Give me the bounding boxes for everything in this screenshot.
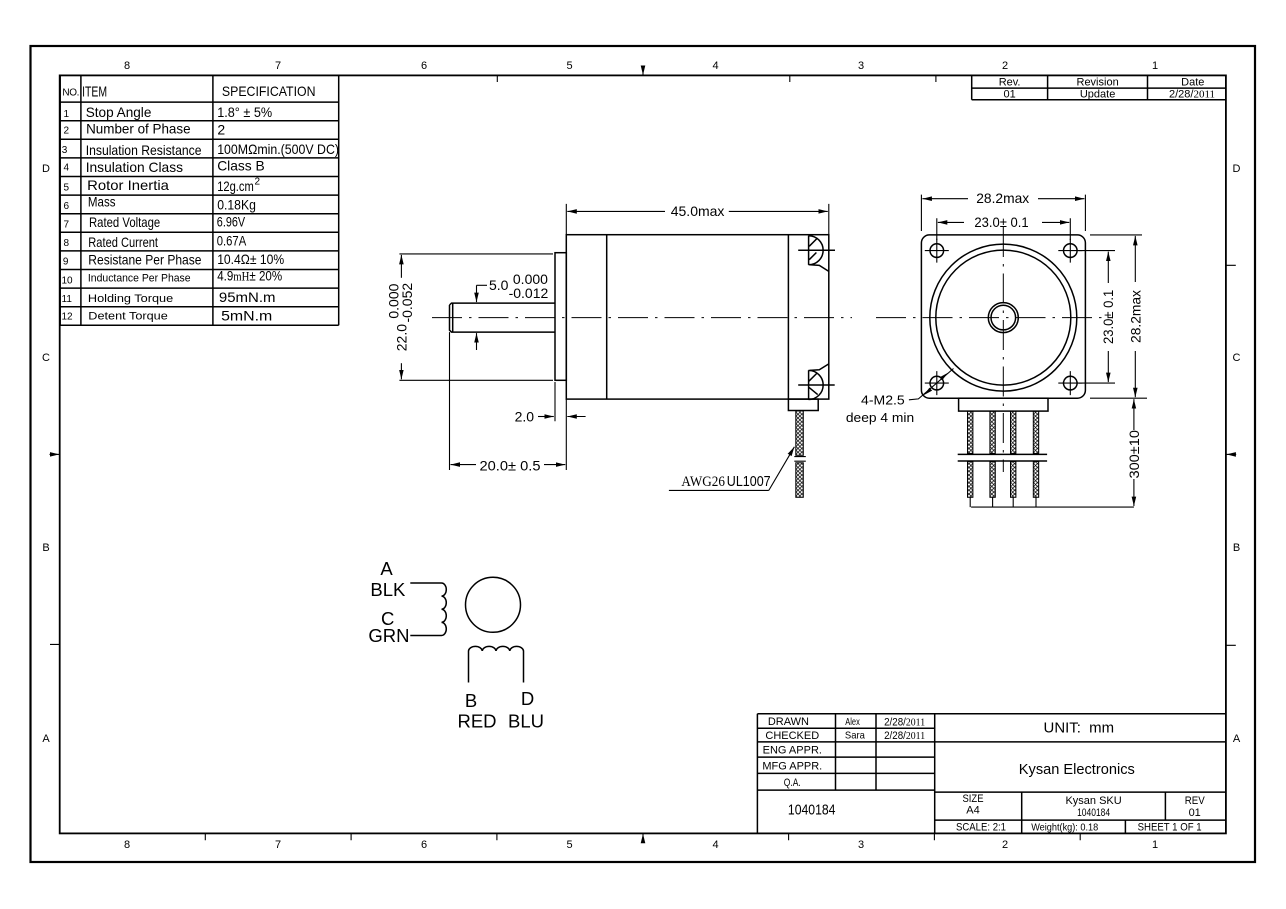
svg-text:2/28/2011: 2/28/2011: [884, 717, 925, 729]
svg-text:ENG APPR.: ENG APPR.: [763, 745, 822, 757]
svg-text:D: D: [1233, 163, 1241, 175]
svg-text:2: 2: [217, 122, 225, 138]
svg-text:Holding Torque: Holding Torque: [88, 293, 173, 305]
svg-text:B: B: [42, 542, 49, 554]
svg-text:SPECIFICATION: SPECIFICATION: [222, 83, 316, 99]
svg-text:4.9mH± 20%: 4.9mH± 20%: [217, 267, 282, 283]
svg-text:9: 9: [63, 256, 69, 267]
svg-text:1040184: 1040184: [788, 802, 836, 819]
svg-text:Alex: Alex: [845, 716, 860, 728]
svg-text:2/28/2011: 2/28/2011: [884, 730, 925, 742]
svg-text:8: 8: [64, 238, 70, 249]
svg-text:10: 10: [62, 275, 74, 286]
svg-text:Kysan SKU: Kysan SKU: [1065, 795, 1121, 807]
svg-text:Detent Torque: Detent Torque: [88, 311, 168, 323]
svg-text:Sara: Sara: [845, 730, 865, 742]
svg-text:C: C: [42, 352, 50, 364]
svg-text:28.2max: 28.2max: [1127, 290, 1143, 343]
svg-text:Rated Voltage: Rated Voltage: [89, 214, 160, 230]
svg-text:GRN: GRN: [368, 625, 409, 646]
svg-text:01: 01: [1003, 88, 1015, 100]
svg-text:2: 2: [1002, 60, 1008, 72]
svg-text:Q.A.: Q.A.: [784, 777, 801, 789]
svg-text:REV: REV: [1185, 795, 1206, 807]
svg-text:7: 7: [275, 839, 281, 851]
svg-text:1: 1: [1152, 839, 1158, 851]
svg-text:1040184: 1040184: [1077, 807, 1110, 819]
svg-text:2: 2: [255, 177, 261, 188]
svg-text:5mN.m: 5mN.m: [221, 309, 272, 324]
svg-text:20.0± 0.5: 20.0± 0.5: [480, 458, 541, 474]
svg-text:Number of Phase: Number of Phase: [86, 121, 191, 137]
svg-text:Weight(kg): 0.18: Weight(kg): 0.18: [1031, 822, 1098, 834]
svg-text:B: B: [1233, 542, 1240, 554]
svg-text:BLK: BLK: [370, 579, 406, 600]
svg-text:A: A: [380, 558, 393, 579]
svg-text:12g.cm: 12g.cm: [217, 178, 254, 194]
svg-text:0.18Kg: 0.18Kg: [217, 197, 256, 213]
svg-text:0.67A: 0.67A: [217, 233, 247, 249]
svg-text:SHEET 1 OF 1: SHEET 1 OF 1: [1138, 822, 1202, 834]
svg-text:NO.: NO.: [62, 87, 79, 98]
svg-text:5: 5: [566, 839, 572, 851]
svg-text:Mass: Mass: [88, 194, 116, 210]
svg-text:300±10: 300±10: [1126, 430, 1142, 479]
svg-text:2: 2: [1002, 839, 1008, 851]
svg-text:MFG APPR.: MFG APPR.: [762, 760, 822, 772]
svg-text:100MΩmin.(500V DC): 100MΩmin.(500V DC): [217, 141, 339, 157]
svg-text:6: 6: [64, 201, 70, 212]
svg-text:deep 4 min: deep 4 min: [846, 410, 914, 425]
svg-text:4: 4: [712, 60, 718, 72]
svg-text:A: A: [1233, 733, 1241, 745]
svg-text:6.96V: 6.96V: [217, 213, 246, 229]
svg-text:95mN.m: 95mN.m: [219, 290, 276, 305]
svg-text:A: A: [42, 733, 50, 745]
svg-text:4: 4: [64, 163, 70, 174]
svg-text:8: 8: [124, 60, 130, 72]
svg-text:7: 7: [64, 220, 70, 231]
svg-text:Insulation Class: Insulation Class: [86, 159, 183, 175]
svg-text:45.0max: 45.0max: [671, 203, 725, 219]
svg-text:2.0: 2.0: [515, 408, 535, 424]
svg-text:Insulation Resistance: Insulation Resistance: [86, 142, 202, 158]
svg-text:3: 3: [858, 60, 864, 72]
svg-text:Stop Angle: Stop Angle: [86, 104, 152, 120]
svg-text:6: 6: [421, 839, 427, 851]
svg-text:AWG26: AWG26: [681, 474, 725, 490]
svg-text:Date: Date: [1181, 76, 1204, 88]
svg-text:1.8° ± 5%: 1.8° ± 5%: [217, 104, 272, 120]
svg-text:SCALE: 2:1: SCALE: 2:1: [956, 822, 1006, 834]
svg-text:6: 6: [421, 60, 427, 72]
svg-text:-0.012: -0.012: [509, 285, 549, 301]
svg-text:Rev.: Rev.: [999, 76, 1021, 88]
svg-text:Inductance Per Phase: Inductance Per Phase: [88, 272, 191, 284]
svg-text:3: 3: [62, 145, 68, 156]
svg-text:28.2max: 28.2max: [976, 190, 1029, 206]
svg-text:C: C: [1233, 352, 1241, 364]
svg-text:-0.052: -0.052: [399, 283, 415, 323]
svg-text:Rotor Inertia: Rotor Inertia: [87, 177, 169, 193]
svg-text:Revision: Revision: [1077, 76, 1119, 88]
svg-text:23.0± 0.1: 23.0± 0.1: [974, 214, 1028, 230]
svg-text:1: 1: [64, 109, 70, 120]
svg-text:01: 01: [1189, 807, 1201, 819]
svg-text:DRAWN: DRAWN: [768, 716, 809, 728]
svg-text:Rated Current: Rated Current: [88, 234, 158, 250]
svg-text:2/28/2011: 2/28/2011: [1169, 89, 1215, 101]
svg-text:CHECKED: CHECKED: [765, 730, 819, 742]
svg-text:Resistane Per Phase: Resistane Per Phase: [88, 251, 201, 267]
svg-text:5: 5: [64, 182, 70, 193]
svg-text:Class B: Class B: [217, 158, 265, 174]
svg-text:8: 8: [124, 839, 130, 851]
svg-text:23.0± 0.1: 23.0± 0.1: [1100, 290, 1116, 344]
svg-text:5.0: 5.0: [489, 277, 509, 293]
svg-text:Kysan Electronics: Kysan Electronics: [1019, 761, 1135, 778]
svg-text:UL1007: UL1007: [727, 473, 771, 490]
svg-text:D: D: [521, 688, 534, 709]
svg-text:1: 1: [1152, 60, 1158, 72]
svg-text:SIZE: SIZE: [963, 793, 984, 805]
svg-text:11: 11: [62, 294, 73, 305]
svg-text:BLU: BLU: [508, 711, 544, 732]
svg-text:22.0: 22.0: [394, 324, 410, 351]
svg-text:4: 4: [712, 839, 718, 851]
svg-text:4-M2.5: 4-M2.5: [861, 393, 905, 408]
svg-text:5: 5: [566, 60, 572, 72]
svg-text:B: B: [465, 690, 477, 711]
svg-text:Update: Update: [1080, 88, 1115, 100]
svg-text:3: 3: [858, 839, 864, 851]
svg-text:12: 12: [62, 312, 74, 323]
svg-text:10.4Ω± 10%: 10.4Ω± 10%: [217, 251, 284, 267]
svg-text:RED: RED: [457, 711, 496, 732]
svg-text:7: 7: [275, 60, 281, 72]
svg-text:ITEM: ITEM: [82, 83, 107, 100]
svg-text:A4: A4: [966, 805, 979, 817]
svg-text:2: 2: [64, 126, 70, 137]
svg-text:UNIT: mm: UNIT: mm: [1044, 720, 1115, 737]
svg-text:D: D: [42, 163, 50, 175]
